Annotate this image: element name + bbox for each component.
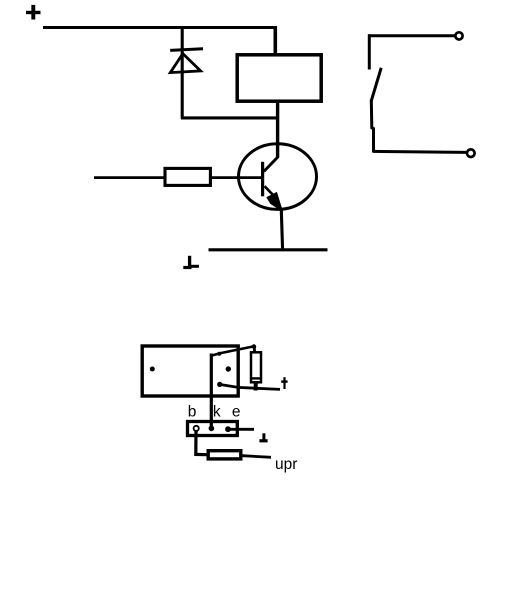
svg-text:e: e (232, 403, 241, 420)
transistor VT1 base bar (261, 162, 264, 197)
pin k dot (209, 426, 215, 432)
ground symbol lower (259, 433, 267, 441)
transistor VT1 emitter with arrow (265, 186, 283, 211)
transistor VT1 collector stroke (264, 157, 279, 172)
wire to series resistor diagonal (212, 344, 257, 355)
wire resistor R3 to upr (243, 456, 272, 458)
wire contact upper vertical (368, 34, 371, 69)
wire contact lower vertical (371, 100, 373, 153)
svg-text:b: b (188, 403, 197, 420)
wire emitter to ground rail (281, 210, 282, 250)
wire relay coil to collector (276, 103, 279, 158)
wire pin b to resistor R3 (196, 431, 207, 455)
supply + mark lower (281, 377, 287, 389)
supply + terminal (26, 5, 41, 20)
wire diode branch vertical (181, 26, 184, 119)
terminal block (188, 422, 238, 436)
wire diode bottom to relay branch (181, 116, 278, 119)
wire corner down to relay coil (273, 26, 277, 55)
relay contact terminal top (455, 32, 462, 39)
wire ground rail (209, 248, 328, 251)
relay contact terminal bottom (467, 149, 475, 157)
resistor R2 vertical (251, 352, 262, 382)
coil terminal dot (226, 366, 231, 371)
wire top supply rail (43, 26, 277, 29)
ground symbol (183, 256, 199, 268)
pin e dot (225, 426, 231, 432)
svg-text:k: k (213, 403, 221, 420)
pin b open circle (194, 426, 199, 431)
wire k lead vertical (210, 354, 213, 430)
wire base right segment (211, 176, 263, 179)
relay coil K1 (237, 55, 321, 101)
svg-text:upr: upr (275, 456, 297, 473)
resistor R3 (208, 451, 241, 459)
wire contact dot to plus (221, 385, 280, 390)
diode VD1 (170, 49, 203, 73)
resistor R1 (165, 168, 210, 185)
wire pin e to ground (230, 428, 254, 431)
relay contact switch lever (371, 68, 381, 101)
wire relay contact bottom (373, 151, 467, 152)
wire base left segment (94, 176, 165, 179)
wire relay contact top (369, 34, 455, 37)
transistor VT1 body circle (239, 144, 317, 210)
wire resistor R2 to supply junction (254, 384, 258, 391)
contact terminal dot (217, 382, 222, 387)
mounting dot left (150, 367, 155, 372)
relay module body (142, 346, 238, 396)
